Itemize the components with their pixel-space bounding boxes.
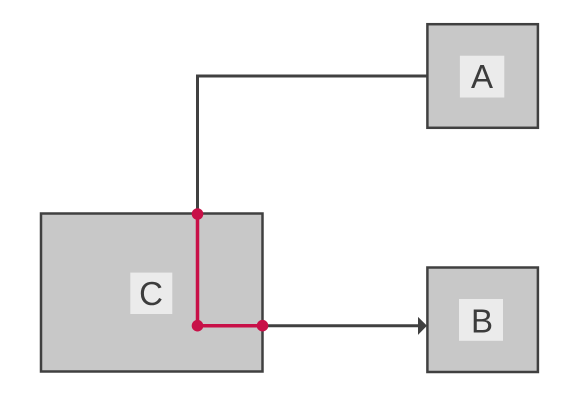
red node dot right <box>257 320 269 332</box>
svg-text:A: A <box>471 58 493 95</box>
red node dot corner <box>192 320 204 332</box>
red node dot top <box>192 208 204 220</box>
node C <box>41 214 263 372</box>
arrowhead into B <box>418 317 427 335</box>
wire edge C to B <box>263 324 420 327</box>
red wire edge inside C <box>198 214 263 326</box>
label B <box>459 299 503 341</box>
wire edge A to C <box>198 76 428 214</box>
label A <box>460 56 504 98</box>
node A <box>427 24 538 128</box>
node B <box>427 268 538 373</box>
label C <box>130 273 172 314</box>
svg-text:B: B <box>471 303 493 340</box>
svg-text:C: C <box>139 275 163 312</box>
